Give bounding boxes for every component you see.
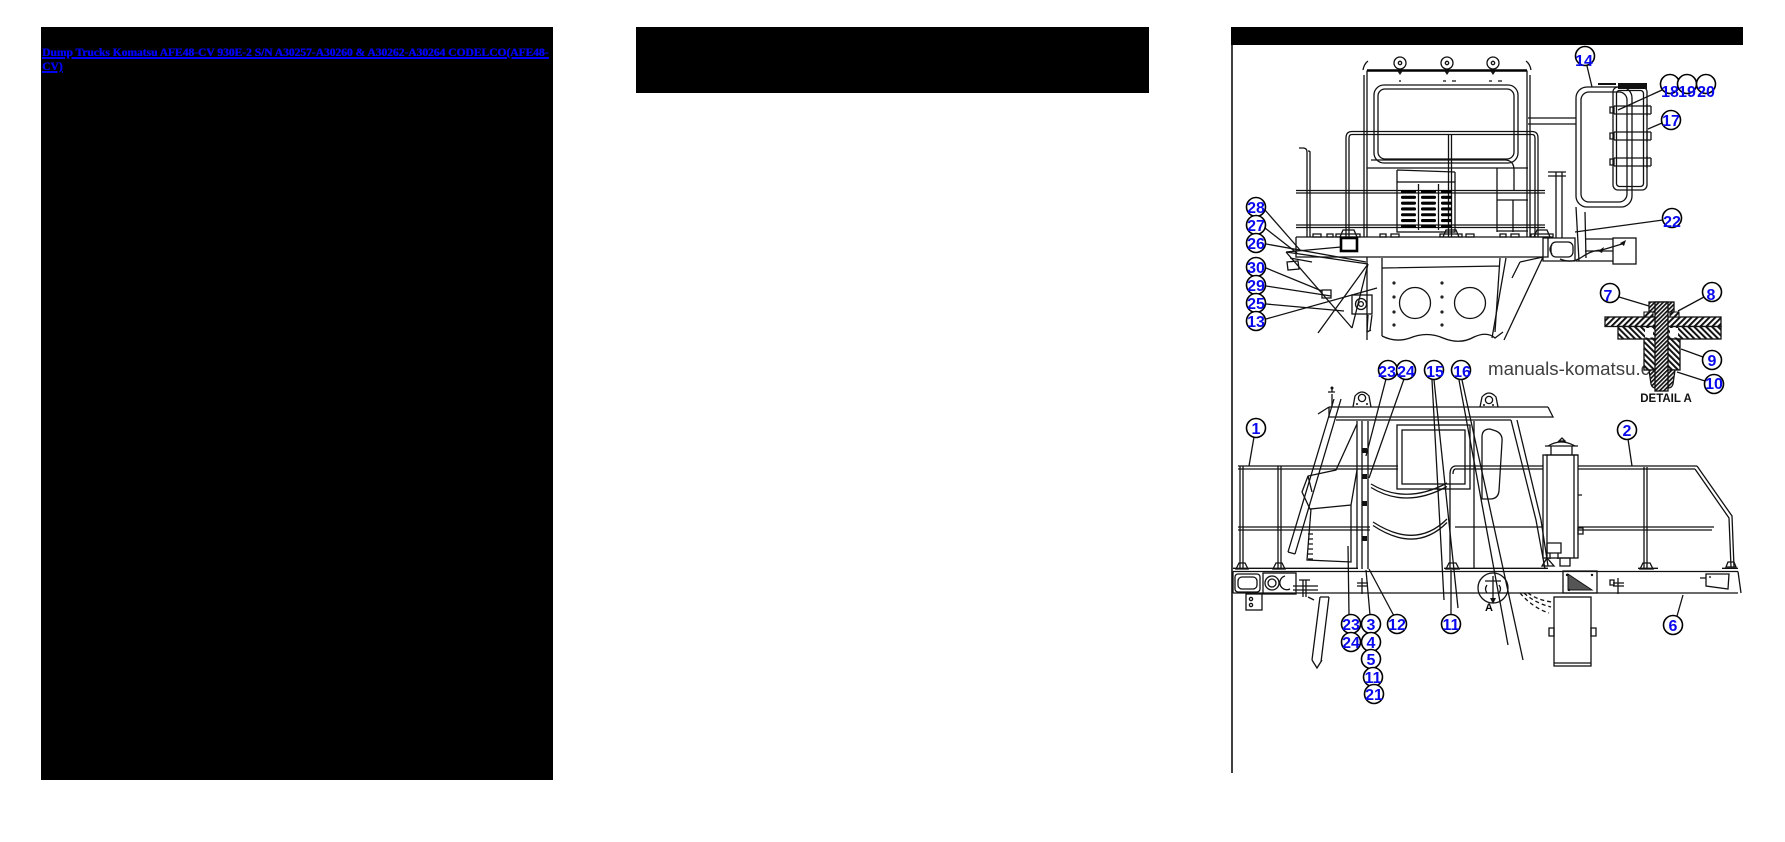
marker light 3 [1487,57,1499,75]
mirror arm diagonal tubes [1288,399,1341,554]
mirror outer frame (item 14) [1576,87,1632,207]
panel wavy torn bottom [1382,332,1503,341]
callout 13 [1247,288,1378,331]
canopy right end [1543,407,1553,417]
svg-text:17: 17 [1662,113,1680,130]
lifting eye right [1480,393,1498,407]
air cleaner cap [1545,438,1578,455]
tow pin [1293,580,1318,600]
callout 19 [1678,75,1697,102]
svg-text:3: 3 [1367,617,1376,634]
mirror arm triangle assembly [1286,247,1368,333]
svg-text:12: 12 [1388,617,1406,634]
antenna [1328,389,1335,407]
callout 14 [1575,47,1594,88]
handrail inner loop rail [1371,160,1514,190]
svg-text:21: 21 [1365,687,1383,704]
mirror plate inner [1617,91,1644,187]
cab rear lower bracket [1547,543,1561,559]
detail A bolt head [1649,302,1674,312]
callout 18 [1618,75,1680,111]
callout 23 bottom [1342,546,1361,634]
svg-text:18: 18 [1661,84,1679,101]
detail A bolt shaft [1655,302,1668,391]
svg-text:24: 24 [1397,364,1415,381]
cable arrow ticks [1598,240,1626,253]
svg-text:2: 2 [1623,423,1632,440]
cab side window [1397,425,1470,489]
circled A marker [1478,573,1508,614]
deck right bracket housing [1543,238,1575,261]
handrail far-left post [1299,148,1310,237]
callout 8 [1678,283,1722,312]
svg-text:16: 16 [1453,364,1471,381]
svg-text:11: 11 [1443,617,1460,634]
cab roof thick edge [1367,69,1527,71]
air cleaner fittings [1542,495,1583,566]
callout 26 [1247,234,1367,263]
cab nose cowl [1302,424,1357,509]
svg-text:28: 28 [1247,200,1265,217]
panel hole circle left [1400,288,1431,319]
deck foot left post [1336,230,1360,237]
right railing posts [1644,467,1647,569]
mirror crossbar 3 [1610,156,1651,168]
detail A plate clearance gaps [1645,328,1653,338]
callout 25 [1247,294,1345,314]
mirror vertical arm bars [1548,172,1566,238]
canopy left taper [1318,407,1336,417]
svg-text:20: 20 [1697,84,1715,101]
mirror arm horizontal bracket [1585,239,1613,251]
callout 17 [1648,111,1681,131]
hydraulic tank [1549,597,1596,666]
callout 16 [1452,361,1524,661]
deck T-bolt left [1357,578,1368,594]
mirror arm small plate [1287,261,1299,270]
callout 24 bottom [1342,633,1361,653]
mirror crossbar 1 [1610,104,1651,116]
marker light 2 [1441,57,1453,75]
drooping cable upper [1371,483,1447,498]
callout 6 [1664,595,1684,635]
bumper box left [1235,574,1260,592]
svg-text:19: 19 [1678,84,1696,101]
svg-text:5: 5 [1367,652,1376,669]
callout 24 top [1369,361,1416,479]
canopy top lines [1329,407,1548,417]
svg-text:14: 14 [1575,53,1593,70]
deck foot right post [1531,230,1553,237]
detail A lower plate [1618,327,1721,340]
pillar bolt tabs [1362,448,1367,541]
right cowl panel [1497,168,1528,232]
callout 3 [1362,570,1381,634]
air cleaner canister [1543,455,1578,558]
drawing frame top bar [1231,27,1743,45]
svg-text:26: 26 [1247,236,1265,253]
callout 12 [1369,569,1407,634]
callout 5 [1362,650,1381,670]
svg-text:15: 15 [1426,364,1444,381]
ladder chute [1312,597,1329,668]
svg-text:A: A [1485,602,1493,614]
frame right end plate [1700,574,1729,589]
left railing mid rail [1238,527,1370,530]
svg-text:9: 9 [1708,353,1717,370]
deck band bottom [1296,237,1548,257]
handrail top rail [1346,132,1538,238]
drawing frame left border [1231,45,1233,773]
drooping cable lower [1373,519,1447,539]
svg-text:25: 25 [1247,296,1265,313]
mirror mount slant plate [1576,207,1613,261]
cab roof line [1336,419,1511,421]
detail A spacer [1644,339,1680,370]
panel hole circle right [1455,288,1486,319]
left railing posts [1240,466,1281,569]
detail A nut [1649,370,1675,388]
grille upper box [1397,170,1455,182]
callout 30 [1247,258,1323,292]
handrail lower rail [1296,225,1545,228]
left railing top rail [1238,466,1398,469]
grille outer box [1397,182,1455,232]
svg-text:DETAIL A: DETAIL A [1640,393,1692,405]
cab right wall [1527,71,1530,238]
right railing top rail [1450,466,1734,569]
mirror support bar from cab [1528,118,1576,124]
deck top edge [1296,236,1549,238]
cab corner ticks [1363,61,1531,70]
callout 15 [1425,361,1459,609]
bumper box lights [1263,573,1296,594]
cab front pillar [1357,421,1368,569]
wavy cable to light box [1560,244,1622,261]
svg-text:8: 8 [1707,287,1716,304]
mirror plate (item 17) [1613,87,1647,190]
deck small bolts [1313,234,1519,237]
detail A washer halves [1644,312,1679,317]
callout 1 [1247,419,1266,467]
handrail mid rail [1296,191,1545,194]
deck foot center post [1440,230,1462,237]
deck left black square bracket [1341,238,1357,251]
nose tick grille [1308,534,1313,559]
top middle redacted block [636,27,1149,93]
cab left wall [1364,71,1367,238]
callout 23 top [1366,361,1398,457]
callout 27 [1247,216,1298,254]
svg-text:1: 1 [1252,421,1261,438]
mirror plate dark top cap [1618,83,1647,89]
svg-text:10: 10 [1705,376,1723,393]
below-deck front panel [1382,258,1500,336]
pivot pin below bracket [1367,315,1372,332]
callout 11 stack [1364,668,1383,688]
windshield outer frame [1374,85,1518,163]
bumper bottom plate [1246,594,1262,610]
mid mount bracket [1563,571,1597,593]
svg-text:23: 23 [1342,617,1360,634]
left redacted page block [41,27,553,780]
callout 11 mid [1442,570,1461,634]
cowl panel line below windshield [1367,167,1528,169]
frame rail band [1233,572,1741,594]
svg-text:22: 22 [1663,214,1681,231]
callout 2 [1618,421,1637,467]
callout 28 [1247,198,1301,251]
grille louvers [1401,190,1452,228]
mirror light box [1613,238,1636,264]
cab rear slant pillar [1511,420,1548,569]
mirror arm small square [1322,290,1331,298]
callout 29 [1247,276,1332,297]
windshield inner frame [1378,89,1514,159]
roof small dashes [1400,80,1502,82]
lifting eye left [1353,392,1371,407]
frame left vertical below deck [1366,257,1368,340]
svg-text:24: 24 [1342,635,1360,652]
detail A top plate [1605,317,1721,327]
cab door window [1482,429,1502,499]
callout 10 [1677,372,1724,394]
dashed hoses under frame [1520,593,1552,613]
panel bolt dots [1392,281,1443,326]
svg-text:30: 30 [1247,260,1265,277]
mirror outer frame inner line [1581,92,1627,202]
mirror crossbar 2 [1610,130,1651,142]
callout 22 [1575,209,1682,233]
page title link [42,46,562,75]
left post feet [1236,563,1285,569]
handrail center post [1449,135,1452,237]
svg-text:6: 6 [1669,618,1678,635]
cab door edge [1473,421,1475,569]
marker light 1 [1394,57,1406,75]
svg-text:29: 29 [1247,278,1265,295]
cab hood box [1307,505,1351,562]
deck T-bolt right [1610,578,1624,594]
right post feet [1446,562,1736,569]
callout 20 [1697,75,1716,102]
callout 4 [1362,633,1381,653]
svg-text:27: 27 [1247,218,1265,235]
callout 7 [1601,284,1650,307]
callout 21 [1365,685,1384,705]
grille column separators [1419,184,1439,230]
callout 9 [1681,349,1722,370]
left pivot bracket below deck [1352,295,1372,314]
svg-text:13: 13 [1247,314,1265,331]
right diagonal braces below deck [1492,257,1543,340]
right railing mid rail [1455,527,1714,530]
svg-text:23: 23 [1378,364,1396,381]
deck step edge above frame [1233,567,1738,569]
svg-text:7: 7 [1604,288,1613,305]
